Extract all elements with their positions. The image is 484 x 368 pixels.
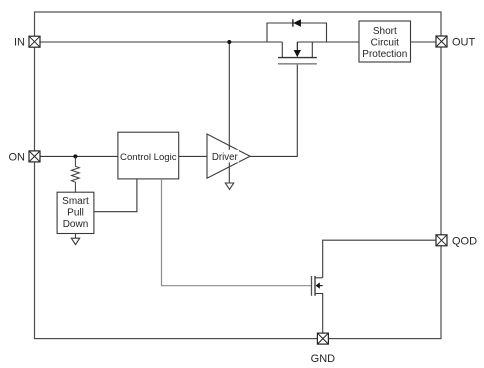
wire Control Logic to Driver bbox=[179, 155, 207, 157]
resistor R1 (smart pulldown) bbox=[72, 156, 80, 192]
transistor Q2 NMOS body arrow (left) bbox=[316, 282, 323, 288]
pin GND bbox=[317, 333, 328, 344]
node junction dot on ON line bbox=[73, 154, 77, 158]
transistor Q2 NMOS gate bar bbox=[311, 276, 313, 296]
transistor Q2 NMOS source stub and wire to GND bbox=[315, 294, 323, 334]
transistor Q2 NMOS drain stub bbox=[315, 277, 323, 279]
wire Driver output to PMOS gate bbox=[250, 64, 297, 156]
transistor Q2 NMOS channel bar bbox=[314, 276, 316, 296]
svg-text:GND: GND bbox=[311, 353, 336, 365]
svg-text:Short: Short bbox=[373, 26, 397, 37]
svg-text:Control Logic: Control Logic bbox=[120, 152, 177, 163]
wire Control Logic to QOD NMOS gate (gray net) bbox=[162, 179, 312, 286]
svg-text:Driver: Driver bbox=[212, 152, 239, 163]
transistor Q1 PMOS body arrow (down) bbox=[294, 42, 301, 57]
transistor Q1 PMOS channel bar bbox=[278, 57, 317, 59]
block Control Logic U1 bbox=[118, 132, 179, 179]
ground symbol under Driver bbox=[225, 183, 233, 189]
wire rail to short-circuit-protection bbox=[297, 41, 359, 43]
wire SCP to OUT bbox=[411, 41, 437, 43]
wire ON line bbox=[40, 155, 118, 157]
op-amp Driver U2 (buffer triangle) bbox=[207, 134, 250, 178]
svg-text:Protection: Protection bbox=[362, 49, 407, 60]
wire QOD line with NMOS drain bbox=[323, 240, 436, 278]
svg-text:Down: Down bbox=[63, 219, 89, 230]
pin label ON bbox=[9, 151, 26, 163]
pin label QOD bbox=[452, 235, 477, 247]
transistor Q1 PMOS body-diode loop wire bbox=[267, 23, 327, 42]
pin label OUT bbox=[452, 37, 476, 49]
transistor Q1 PMOS drain leg bbox=[311, 42, 313, 57]
block Smart Pull Down bbox=[57, 192, 94, 233]
pin ON bbox=[29, 151, 40, 162]
wire SPD ground stub bbox=[75, 234, 77, 239]
svg-text:Smart: Smart bbox=[62, 196, 89, 207]
ground symbol under Smart Pull Down bbox=[71, 238, 79, 244]
transistor Q1 PMOS gate bar bbox=[278, 63, 317, 65]
pin label GND bbox=[311, 353, 336, 365]
wire IN rail bbox=[40, 41, 282, 43]
diode D1 (body diode, pointing left) bbox=[293, 19, 301, 27]
wire driver supply (vertical from IN rail to ground arrow) bbox=[228, 42, 230, 183]
pin label IN bbox=[14, 37, 25, 49]
svg-text:Circuit: Circuit bbox=[371, 37, 400, 48]
block Short Circuit Protection bbox=[359, 21, 411, 62]
svg-text:Pull: Pull bbox=[67, 208, 84, 219]
wire Control Logic to Smart Pull Down bbox=[94, 179, 137, 212]
svg-text:QOD: QOD bbox=[452, 235, 477, 247]
pin IN bbox=[29, 36, 40, 47]
outer boundary box bbox=[35, 12, 442, 339]
node junction dot on IN rail bbox=[227, 40, 231, 44]
transistor Q1 PMOS source leg bbox=[281, 42, 283, 57]
pin QOD bbox=[436, 235, 447, 246]
svg-text:IN: IN bbox=[14, 37, 25, 49]
svg-text:ON: ON bbox=[9, 151, 26, 163]
pin OUT bbox=[436, 36, 447, 47]
svg-text:OUT: OUT bbox=[452, 37, 476, 49]
